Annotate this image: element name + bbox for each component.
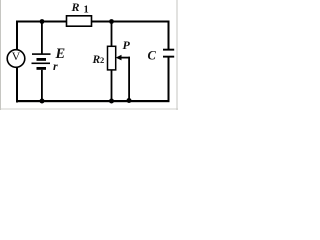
node: R2 bottom junction — [109, 99, 114, 104]
battery cell1 short plate — [37, 58, 47, 61]
svg-text:r: r — [53, 59, 58, 73]
svg-text:V: V — [12, 49, 21, 63]
capacitor C bottom plate — [163, 56, 174, 58]
capacitor C top plate — [163, 49, 174, 51]
svg-text:1: 1 — [84, 5, 89, 16]
wire: battery top lead — [41, 22, 43, 55]
node: wiper bottom junction — [127, 98, 132, 103]
wire right: capacitor bottom plate to bottom corner — [168, 57, 170, 102]
wire right: top corner down to capacitor top plate — [168, 21, 170, 50]
wiper arrow P of R2 — [116, 55, 122, 61]
wire: R2 bottom lead — [111, 70, 113, 102]
wire: wiper horizontal — [121, 57, 131, 59]
battery cell2 long plate — [32, 63, 51, 65]
wire: wiper vertical down — [128, 57, 130, 102]
wire: R2 top lead — [111, 22, 113, 47]
resistor R1 — [67, 16, 92, 26]
svg-text:C: C — [148, 49, 157, 63]
battery E,r cell1 long plate — [32, 53, 51, 55]
battery cell2 short plate — [37, 67, 47, 70]
wire left: top corner down to voltmeter top — [16, 21, 18, 50]
wire top: left corner to R1 left — [16, 21, 67, 23]
svg-text:2: 2 — [100, 55, 104, 65]
wire top: R1 right to top-right corner — [92, 21, 170, 23]
svg-text:R: R — [71, 0, 80, 14]
wire: battery bottom lead — [41, 70, 43, 102]
node: battery top junction — [40, 19, 45, 24]
node: battery bottom junction — [40, 99, 45, 104]
wire left: voltmeter bottom to bottom corner — [16, 68, 18, 103]
voltmeter V — [7, 50, 25, 68]
node: R2 top junction — [109, 19, 114, 24]
svg-text:P: P — [123, 38, 131, 52]
resistor R2 (rheostat body) — [108, 46, 116, 70]
wire bottom — [16, 100, 170, 102]
